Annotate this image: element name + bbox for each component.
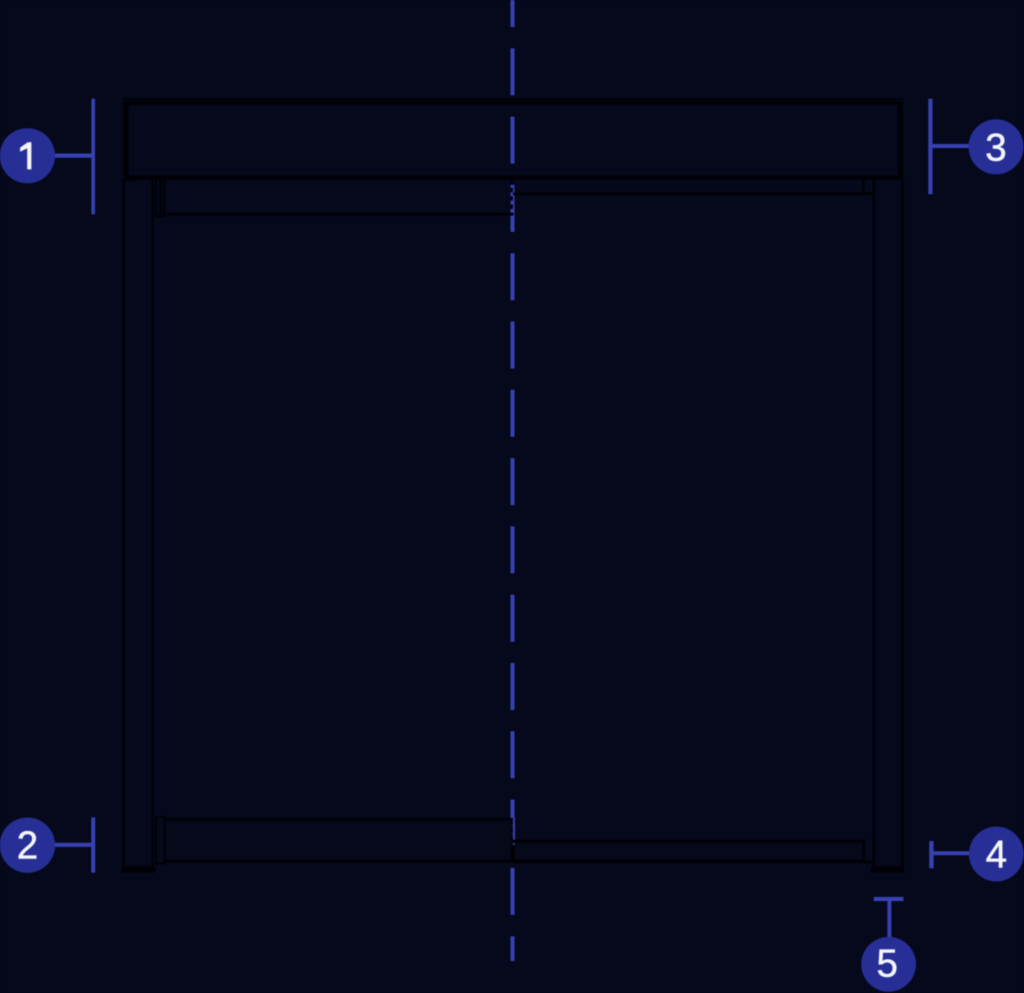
left bottom bar fill — [166, 818, 513, 862]
left fabric slot line c — [163, 180, 165, 216]
dimension tick 5 — [874, 897, 904, 901]
right half fabric line — [513, 192, 873, 195]
dimension tick 2 — [91, 817, 95, 872]
dimension tick 4 — [929, 841, 933, 868]
top cassette inner left thin line — [127, 101, 129, 176]
dimension tick 3 — [928, 99, 932, 195]
leader 4 — [929, 851, 970, 855]
right guide rail foot — [871, 866, 905, 873]
left guide rail inner line — [152, 179, 154, 867]
top cassette inner right thin line — [897, 101, 899, 176]
right guide rail outer line — [901, 179, 903, 867]
right small bump line — [866, 192, 872, 194]
right guide rail inner line — [873, 179, 875, 867]
digit 1 (custom glyph, no foot serif) — [20, 142, 31, 169]
right bottom bar end cap — [863, 840, 865, 863]
svg-text:5: 5 — [876, 943, 897, 986]
left fabric slot bottom cap — [155, 215, 166, 218]
right step vertical under cassette — [862, 179, 864, 195]
right bottom connector line to rail — [864, 861, 873, 863]
left fabric slot line b — [160, 180, 162, 216]
callout circle 2 — [0, 818, 55, 873]
callout circle 5 — [861, 937, 916, 992]
left bottom bar top line — [166, 818, 514, 821]
left bottom bar bottom line — [166, 860, 514, 863]
right bottom bar fill — [516, 843, 862, 862]
svg-text:3: 3 — [985, 126, 1006, 169]
hidden fabric edge at centerline (top, dashed) — [511, 180, 513, 214]
top cassette top thin line — [124, 98, 904, 100]
leader 2 — [55, 843, 95, 847]
callout circle 4 — [969, 827, 1024, 882]
right bottom bar top line — [512, 840, 863, 843]
hidden bar edge at centerline (bottom, dashed) — [511, 820, 513, 846]
top cassette interior fill — [125, 103, 901, 177]
left fabric slot line a — [155, 180, 157, 216]
centerline narrow blue segment over left bar zone — [513, 818, 515, 842]
fabric top full-width line under cassette — [124, 177, 902, 179]
right bottom bar bottom line — [512, 860, 864, 863]
dimension tick 1 — [91, 99, 95, 214]
callout circle 3 — [969, 119, 1024, 174]
leader 3 — [928, 144, 969, 148]
hidden bar edge at centerline (bottom, solid) — [511, 845, 515, 862]
svg-text:2: 2 — [17, 825, 38, 868]
left bottom bar end cap — [156, 817, 165, 863]
leader 5 — [887, 897, 891, 939]
leader 1 — [55, 154, 95, 158]
left lip step under cassette — [124, 180, 136, 182]
svg-text:4: 4 — [986, 834, 1007, 877]
left guide rail outer line — [123, 179, 125, 867]
centerline (blue dashed vertical axis) — [511, 0, 515, 961]
callout circle 1 — [0, 128, 55, 183]
left guide rail foot — [121, 866, 155, 873]
left half fabric line — [166, 213, 514, 216]
